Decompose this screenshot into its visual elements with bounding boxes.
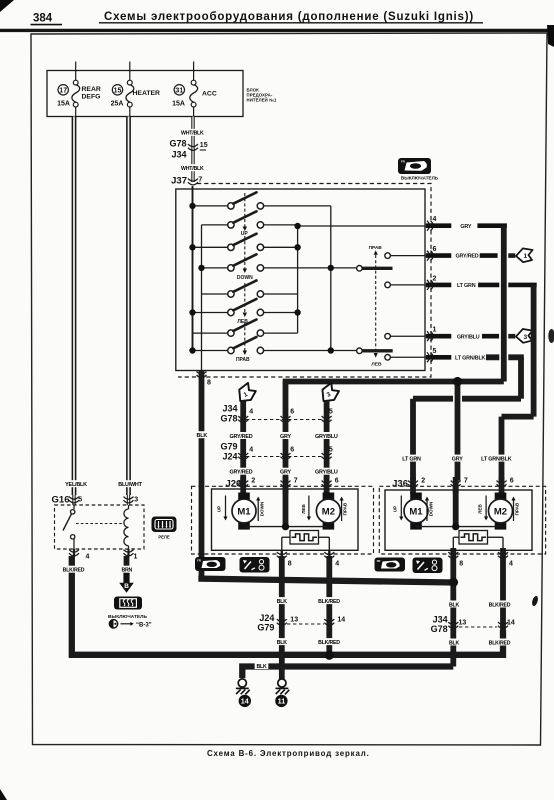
- svg-text:2: 2: [251, 478, 255, 485]
- svg-text:GRY/RED: GRY/RED: [456, 254, 479, 260]
- svg-text:15: 15: [114, 88, 122, 95]
- svg-text:GRY: GRY: [460, 224, 471, 230]
- svg-text:J36: J36: [392, 478, 408, 489]
- svg-text:BLK: BLK: [449, 640, 460, 646]
- svg-text:DOWN: DOWN: [260, 501, 265, 516]
- svg-text:3: 3: [134, 497, 138, 504]
- svg-text:G78: G78: [169, 139, 186, 149]
- svg-text:НИТЕЛЕЙ №1: НИТЕЛЕЙ №1: [247, 98, 278, 103]
- svg-text:7: 7: [294, 478, 298, 485]
- svg-text:ПРАВ: ПРАВ: [369, 245, 383, 251]
- svg-text:DOWN: DOWN: [237, 275, 253, 281]
- svg-text:ЛЕВ: ЛЕВ: [371, 362, 382, 368]
- svg-text:14: 14: [337, 616, 345, 623]
- svg-text:6: 6: [433, 246, 437, 253]
- svg-text:4: 4: [249, 409, 253, 416]
- svg-text:FR: FR: [197, 559, 201, 563]
- svg-text:REAR: REAR: [82, 86, 101, 93]
- svg-text:ПРАВ: ПРАВ: [514, 502, 519, 515]
- svg-text:BLU/WHT: BLU/WHT: [118, 482, 142, 488]
- svg-text:РЕЛЕ: РЕЛЕ: [158, 535, 170, 540]
- svg-text:J34: J34: [222, 404, 237, 414]
- svg-text:5: 5: [433, 348, 437, 355]
- svg-text:4: 4: [433, 216, 437, 223]
- svg-text:ACC: ACC: [202, 91, 217, 98]
- svg-text:14: 14: [507, 620, 515, 627]
- svg-text:G79: G79: [220, 442, 237, 452]
- svg-text:2: 2: [421, 478, 425, 485]
- svg-text:J24: J24: [222, 452, 237, 462]
- svg-text:ЛЕВ: ЛЕВ: [237, 319, 248, 325]
- svg-text:ПРАВ: ПРАВ: [343, 502, 348, 515]
- svg-text:BLK/RED: BLK/RED: [318, 599, 340, 605]
- svg-text:WHT/BLK: WHT/BLK: [181, 131, 204, 137]
- svg-text:M1: M1: [237, 506, 251, 517]
- svg-text:UP: UP: [241, 231, 249, 237]
- svg-text:GRY/RED: GRY/RED: [230, 434, 253, 440]
- svg-text:5: 5: [329, 447, 333, 454]
- svg-text:BLK: BLK: [449, 602, 460, 608]
- svg-text:“B-3”: “B-3”: [136, 622, 152, 628]
- svg-text:M1: M1: [409, 506, 423, 517]
- svg-text:ЛЕВ: ЛЕВ: [301, 504, 306, 514]
- svg-text:BLK/RED: BLK/RED: [318, 640, 340, 646]
- svg-text:UP: UP: [392, 506, 397, 512]
- svg-text:384: 384: [33, 13, 53, 25]
- svg-text:25A: 25A: [111, 101, 124, 108]
- svg-text:4: 4: [86, 554, 90, 561]
- svg-text:4: 4: [509, 561, 513, 568]
- svg-text:BLK: BLK: [277, 599, 288, 605]
- svg-text:5: 5: [78, 497, 82, 504]
- svg-text:BLK: BLK: [277, 640, 288, 646]
- svg-text:15: 15: [200, 142, 208, 149]
- svg-text:8: 8: [288, 561, 292, 568]
- svg-text:LT GRN: LT GRN: [457, 283, 476, 289]
- svg-text:BRN: BRN: [121, 568, 132, 574]
- svg-text:8: 8: [207, 380, 211, 387]
- svg-text:BLK: BLK: [256, 664, 267, 670]
- svg-text:15A: 15A: [57, 101, 70, 108]
- svg-text:13: 13: [290, 616, 298, 623]
- svg-text:M2: M2: [494, 506, 507, 517]
- svg-text:GRY/BLU: GRY/BLU: [315, 434, 338, 440]
- svg-text:ЛЕВ: ЛЕВ: [477, 504, 482, 514]
- svg-text:5: 5: [329, 409, 333, 416]
- svg-text:WHT/BLK: WHT/BLK: [181, 166, 204, 172]
- svg-text:ПРАВ: ПРАВ: [236, 357, 250, 363]
- svg-text:G78: G78: [220, 414, 237, 424]
- svg-text:BLK/RED: BLK/RED: [489, 640, 511, 646]
- svg-text:13: 13: [459, 620, 467, 627]
- svg-text:6: 6: [335, 478, 339, 485]
- svg-text:4: 4: [335, 561, 339, 568]
- svg-text:B: B: [124, 583, 129, 590]
- svg-text:J26: J26: [225, 478, 241, 489]
- svg-text:G78: G78: [431, 624, 448, 634]
- svg-text:BLK: BLK: [197, 433, 208, 439]
- svg-text:LT GRN: LT GRN: [402, 456, 421, 462]
- svg-text:BLK/RED: BLK/RED: [63, 568, 85, 574]
- svg-text:GRY/RED: GRY/RED: [230, 470, 253, 476]
- svg-text:6: 6: [510, 478, 514, 485]
- svg-text:G16: G16: [52, 495, 70, 506]
- svg-text:14: 14: [241, 697, 249, 706]
- svg-text:6: 6: [290, 447, 294, 454]
- svg-text:J34: J34: [433, 615, 448, 625]
- svg-text:Схемы электрооборудования (доп: Схемы электрооборудования (дополнение (S…: [104, 11, 474, 23]
- svg-text:G79: G79: [257, 622, 274, 632]
- svg-text:31: 31: [175, 88, 183, 95]
- svg-text:GRY: GRY: [280, 470, 291, 476]
- svg-text:DEFG: DEFG: [82, 94, 101, 101]
- svg-text:YEL/BLK: YEL/BLK: [65, 482, 87, 488]
- svg-text:ВЫКЛЮЧАТЕЛЬ: ВЫКЛЮЧАТЕЛЬ: [401, 176, 439, 181]
- svg-text:UP: UP: [217, 506, 222, 512]
- svg-text:7: 7: [464, 478, 468, 485]
- svg-text:LT GRN/BLK: LT GRN/BLK: [455, 355, 486, 361]
- svg-text:15A: 15A: [172, 101, 185, 108]
- svg-text:8: 8: [459, 561, 463, 568]
- svg-text:FR: FR: [401, 160, 405, 164]
- svg-text:J34: J34: [171, 150, 186, 160]
- svg-text:1: 1: [134, 554, 138, 561]
- svg-text:3: 3: [523, 334, 527, 341]
- svg-text:2: 2: [433, 275, 437, 282]
- svg-text:HEATER: HEATER: [133, 90, 161, 97]
- svg-text:11: 11: [278, 697, 286, 706]
- svg-text:GRY: GRY: [452, 456, 463, 462]
- svg-text:M2: M2: [322, 506, 335, 517]
- svg-text:7: 7: [198, 177, 202, 184]
- svg-text:FR: FR: [377, 559, 381, 563]
- svg-text:1: 1: [433, 327, 437, 334]
- svg-text:BLK/RED: BLK/RED: [489, 602, 511, 608]
- svg-text:17: 17: [59, 88, 67, 95]
- svg-text:LT GRN/BLK: LT GRN/BLK: [481, 456, 512, 462]
- svg-text:1: 1: [523, 253, 527, 260]
- svg-text:GRY/BLU: GRY/BLU: [315, 470, 338, 476]
- svg-text:6: 6: [290, 409, 294, 416]
- svg-text:J37: J37: [171, 176, 187, 187]
- svg-text:4: 4: [249, 447, 253, 454]
- svg-text:J24: J24: [259, 613, 274, 623]
- svg-text:GRY: GRY: [280, 434, 291, 440]
- svg-text:Схема В-6. Электропривод зерка: Схема В-6. Электропривод зеркал.: [207, 749, 370, 758]
- svg-text:DOWN: DOWN: [428, 501, 433, 516]
- svg-text:GRY/BLU: GRY/BLU: [457, 334, 480, 340]
